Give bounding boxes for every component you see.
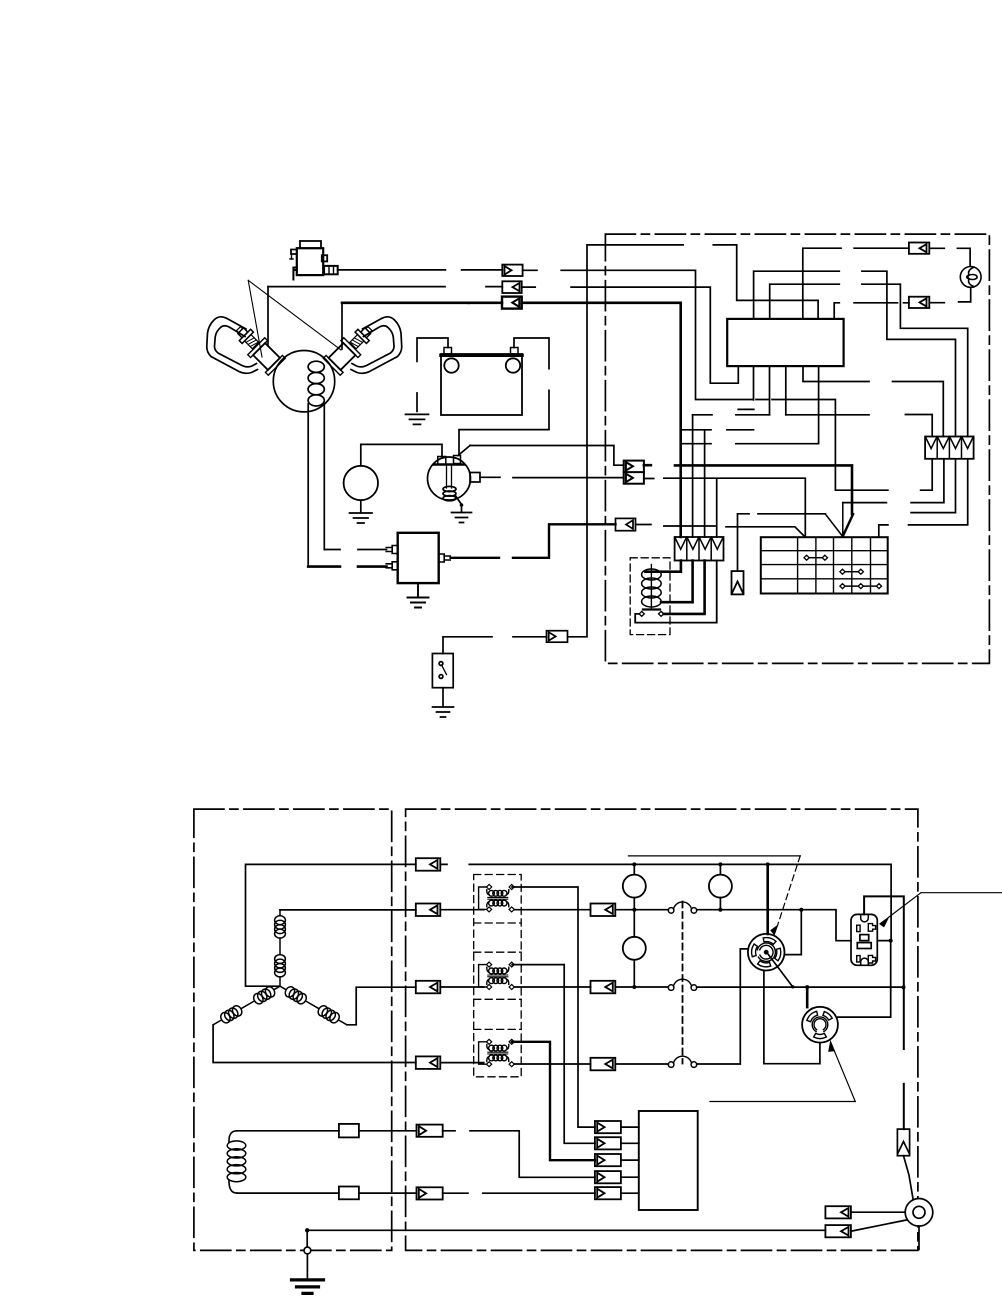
wire: box bottom pin y430 run [681,366,754,430]
wire: R1 bottom to R2 bottom [764,971,820,1064]
wire: CB1 leads [633,864,635,909]
wire: solenoid to double connector CN2 [458,446,624,466]
wire: C6 to pilot lamp [929,248,970,266]
wire: right fuse cell3 bottom lead [911,459,955,513]
connector C6 (bullet <) [909,243,929,254]
connector C4 (bullet <) [616,518,636,530]
current transformer CT3 [479,1039,515,1066]
wire: CT3 secondary to connector F3 (thick) [512,1042,595,1160]
key switch contacts row4 [840,584,882,589]
wire: box bottom pin to y415 [770,366,786,415]
wire: R2 right to GFCI right [838,941,891,1018]
fuse link F1 [732,571,744,594]
wire: ground bus drop to earth [306,1230,308,1247]
connector D2 (bullet <) phase2 [416,904,441,917]
junction dot ground bus [305,1228,309,1232]
connector F3 (bullet >) [595,1154,621,1166]
wire: J1 to ground terminal [851,1211,905,1213]
lower panel dash-dot border box [406,809,918,1250]
wire: CB3 leads [633,910,635,987]
wire: R1 centre to pole2 bus [767,953,793,987]
double connector CN2 (2x bullet >) [624,461,644,484]
wire: CDI out to connector C4 (thick) [451,524,616,558]
wire: E3 to switch pole3 [615,1063,668,1065]
bonding point circle on border [304,1247,311,1254]
wire: connector stubs into control box [621,1127,639,1193]
wire: pole3 to receptacle R1 left [697,949,749,1064]
wire: box pin3 up to connector C6 [803,248,909,319]
wire: stator left coil end to phase4 [213,1025,416,1063]
wire: C1 to control panel [523,270,933,490]
wire: CB2 leads [719,864,721,909]
wire: right plug to y303 line [341,303,343,349]
main switch pole2 contacts [668,979,696,990]
wire: solenoid contact to CN2 lower [480,476,624,478]
wire: C7 to box pin5 [834,303,909,319]
leader fan to spark plugs [248,280,341,357]
wire: stator right coil end to phase3 [347,987,416,1025]
wire: C5 up and into panel to control box [568,245,819,637]
wire: lamp to connector C7 [929,287,970,302]
connector F2 (bullet >) [595,1137,621,1149]
connector E1 (bullet <) [591,904,616,917]
wire: stub y409 [738,408,754,410]
wire: relay coil to left fuse cell1 (thick) [645,561,681,572]
fuse link F2 [897,1129,909,1156]
connector C5 (bullet >) [547,631,568,643]
wire: battery - to starter solenoid [459,338,549,455]
wire: coil leads down to CDI unit [308,404,324,567]
wire: relay coil to left fuse cell2 (thick) [661,561,693,603]
connector F1 (bullet >) [595,1121,621,1133]
CDI / ignition control module [398,533,439,583]
key switch contacts row3 [840,569,863,574]
spark plug / plug cap right [323,317,401,375]
circuit breaker CB3 [623,937,646,960]
wire: box pin under y415 run to right fuse cell1 [693,415,933,437]
wire: solenoid to connector C1 [338,269,503,271]
wire: H1 to connector F4 [443,1131,595,1178]
main switch pole1 contacts [668,902,696,913]
wire: y303 line to connector C3 (thick) [342,301,469,304]
generator dash-dot border box [194,809,392,1250]
connector C3 (bullet <) [502,297,522,309]
wire: box pin2 up-over to right fuse cell4 [770,284,968,436]
wire: receptacle R1 right pin riser [784,910,801,955]
leader arrow to R2 [710,1042,855,1102]
wire: stator centre tap to phase1 bus [246,864,416,986]
wire: phase2 into CT1 [440,909,483,911]
ground (CDI) [408,583,429,607]
wire: relay left contact to left fuse cell4 [635,561,717,623]
connector C1 (bullet >) [502,265,522,276]
starter motor [344,466,378,500]
starter magnetic switch [428,456,481,501]
wire: E2 to switch pole2 [615,986,668,988]
wire: fuse link to ground terminal [904,1156,914,1199]
wire: G2 to H2 [359,1192,417,1194]
connector C2 (bullet <) [502,281,521,293]
wire: phase3 into CT2 [440,986,483,988]
control unit box [727,319,843,366]
wire: left fuse cell3 top feed [704,430,706,537]
wire: R1 top feed (thick) [766,864,769,934]
connector E2 (bullet <) [591,981,616,994]
main switch tie bar (dashed) [682,902,684,1064]
inline connector G2 [339,1187,359,1200]
ignition coil [273,351,334,412]
connector D1 (bullet <) phase1 [416,858,441,871]
spark plug / plug cap left [207,317,285,375]
wire: R2 top feed (thick) [806,987,809,1007]
circuit breaker CB1 [623,875,646,898]
wire: starter motor to solenoid [361,444,442,465]
wire: J2 to ground terminal [851,1220,908,1231]
ground (starter motor) [350,500,373,523]
wire: CT1 to connector E1 [512,909,591,911]
CT dashed boxes [474,875,522,1077]
wire: CN2 top out (thick) to key switch arrow [644,465,852,514]
wire: fuse link F1 top lead [738,514,826,571]
circuit breaker CB2 [709,875,732,898]
wire: pole2 bus [697,986,904,988]
connector J2 (bullet <) [825,1225,851,1237]
ground terminal lug [905,1199,933,1227]
connector D4 (bullet <) phase4 [416,1056,441,1069]
wire: left fuse cell2 top feed [692,415,694,537]
main switch pole3 contacts [668,1056,696,1067]
wire: G1 to H1 [359,1130,417,1132]
connector F4 (bullet >) [595,1171,621,1183]
wire + ground (solenoid plunger) [455,495,462,512]
wire: box pin under to right fuse cell2 [803,366,943,436]
wire: CT3 to connector E3 [512,1063,591,1065]
pilot lamp [960,267,981,288]
starter relay dashed box [630,558,670,635]
engine stop switch [432,654,453,688]
current transformer CT1 [479,885,515,912]
stator winding (3-phase Y) [211,910,350,1029]
wire: frame ground bus [307,1229,825,1231]
key switch feed V arrow [825,503,842,537]
earth ground (main, thick) [306,1254,308,1280]
leader arrow to R1 [628,856,800,935]
wire: C4 to key switch lead [636,525,804,536]
wire: H2 to connector F5 [443,1192,595,1194]
control box (regulator) [639,1111,698,1210]
ground (stop switch) [433,688,454,717]
starter relay coil [642,565,662,609]
wire: CT2 secondary to connector F2 [512,965,595,1144]
leader arrow to GFCI [880,893,1002,927]
wire: box pin1 up-over to right fuse cell3 [754,271,956,436]
wire: exciter bottom lead [237,1192,339,1194]
wire: E1 to breaker bus [615,909,668,911]
wire: phase4 into CT3 [440,1062,483,1064]
connector H1 (bullet >) [417,1125,443,1137]
connector D3 (bullet <) phase3 [416,981,441,994]
control panel dash-dot border box [605,234,989,663]
key switch contact table [761,537,888,593]
starter relay contacts [643,608,660,610]
exciter winding [227,1131,246,1193]
wire: CT1 secondary to connector F1 [512,887,595,1127]
key switch contacts row2 [804,555,828,560]
wire: C3 into panel to left fuse bank (thick) [522,303,681,537]
fuse bank left (4 fuses) [675,537,724,561]
wire: GFCI top to ground link [864,896,904,1129]
wire: left plug to y287 line [267,287,269,345]
wire: right fuse cell4 bottom to key switch col5 [879,459,968,537]
twist lock receptacle R2 [802,1007,838,1043]
wire: pole1 to GFCI branch [697,910,851,941]
wire: exciter top lead [237,1130,339,1132]
connector F5 (bullet >) [595,1187,621,1199]
twist lock receptacle R1 [748,934,785,971]
wire: CN2 bottom out to key switch column2 [644,478,805,537]
wire: stator top coil to phase2 [280,909,416,911]
wire: box bottom pin to y444 run [681,366,819,444]
current transformer CT2 [479,962,515,989]
fuse bank right (4 fuses) [925,437,974,459]
wire: ground terminal to border corner [918,1226,920,1249]
wire: relay right contact to left fuse cell3 (thick) [664,561,705,614]
wire: phase1 bus across panel [440,864,891,940]
GFCI receptacle [851,914,877,965]
wire: stop switch to connector C5 [443,637,547,654]
connector E3 (bullet <) [591,1058,616,1071]
connector J1 (bullet <) [825,1206,851,1218]
inline connector G1 [339,1124,359,1138]
battery [441,348,522,416]
wire: right fuse cell2 bottom to key switch [843,459,944,503]
junction dots [632,862,905,989]
wire: C2 to control panel [522,287,739,383]
fuel cut solenoid [290,241,338,280]
wire: y287 line to connector C2 [268,286,502,288]
connector C7 (bullet <) [909,297,929,308]
wire: battery + to frame (left) [417,338,448,411]
connector H2 (bullet >) [417,1187,443,1199]
wire: CT2 to connector E2 [512,986,591,988]
ground (battery) [406,414,429,424]
